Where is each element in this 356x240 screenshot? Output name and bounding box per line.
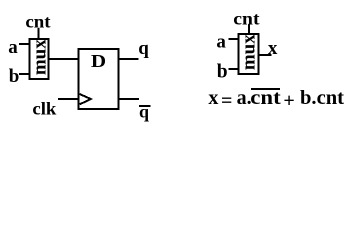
svg-text:a: a	[8, 37, 18, 58]
wire q output	[119, 58, 139, 60]
wire a to mux M2	[229, 38, 240, 40]
svg-text:+: +	[283, 90, 294, 112]
svg-text:a: a	[216, 32, 226, 53]
mux M2 (right)	[239, 34, 259, 74]
svg-text:b: b	[9, 66, 20, 87]
wire a to mux M1	[19, 43, 31, 45]
wire qbar output	[119, 98, 139, 100]
svg-text:clk: clk	[32, 98, 56, 118]
wire clk	[58, 98, 78, 100]
wire b to mux M2	[229, 68, 240, 70]
svg-text:D: D	[91, 51, 106, 71]
mux M1 (left)	[30, 39, 49, 79]
svg-text:mux: mux	[238, 34, 259, 70]
svg-text:cnt: cnt	[250, 87, 281, 109]
overline over cnt	[251, 88, 280, 90]
wire mux M1 output to D input	[49, 58, 79, 60]
svg-text:=: =	[221, 90, 232, 112]
wire cnt to left mux	[38, 28, 40, 39]
svg-text:mux: mux	[30, 39, 51, 75]
wire x output	[259, 54, 272, 56]
clock triangle	[80, 94, 91, 104]
svg-text:cnt: cnt	[233, 8, 259, 28]
wire cnt to right mux	[248, 25, 250, 35]
svg-text:b.cnt: b.cnt	[300, 87, 344, 109]
svg-text:x: x	[208, 87, 218, 109]
wire b to mux M1	[19, 73, 31, 75]
qbar overline	[139, 105, 150, 107]
svg-text:b: b	[217, 62, 228, 83]
svg-text:q: q	[138, 38, 149, 59]
flip-flop U1 box	[79, 49, 119, 109]
svg-text:q: q	[139, 101, 149, 121]
svg-text:x: x	[268, 38, 278, 59]
